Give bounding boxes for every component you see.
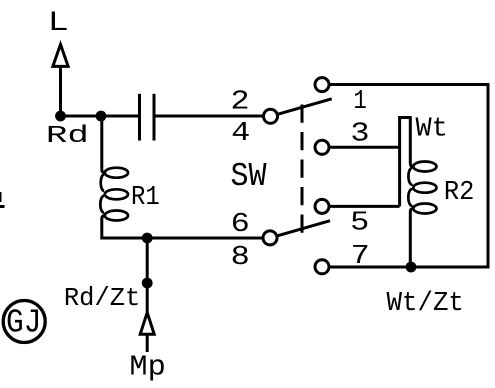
svg-text:R1: R1 — [131, 183, 160, 213]
svg-text:6: 6 — [231, 210, 250, 240]
svg-text:7: 7 — [351, 242, 370, 272]
svg-text:Mp: Mp — [129, 351, 165, 383]
svg-text:3: 3 — [350, 120, 369, 150]
svg-text:R2: R2 — [444, 178, 475, 208]
svg-text:8: 8 — [231, 243, 250, 273]
svg-text:2: 2 — [230, 88, 249, 118]
svg-text:4: 4 — [231, 119, 250, 149]
svg-text:SW: SW — [231, 158, 267, 195]
svg-text:L: L — [48, 8, 69, 39]
svg-text:1: 1 — [353, 87, 366, 117]
svg-text:Wt: Wt — [416, 115, 448, 145]
svg-text:5: 5 — [350, 208, 369, 238]
svg-text:GJ: GJ — [6, 305, 42, 343]
svg-text:Wt/Zt: Wt/Zt — [387, 289, 464, 319]
svg-text:Rd/Zt: Rd/Zt — [64, 284, 140, 313]
svg-text:Rd: Rd — [46, 123, 89, 150]
